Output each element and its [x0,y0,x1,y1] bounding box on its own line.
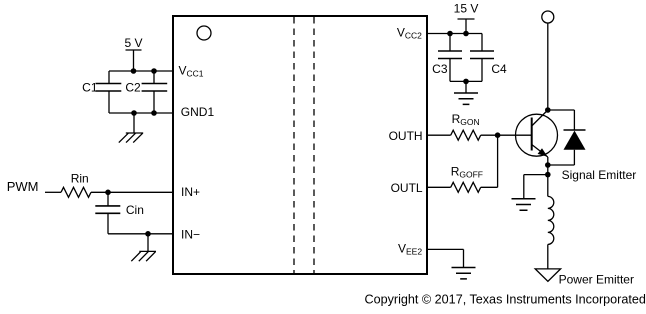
svg-text:IN−: IN− [181,227,200,241]
svg-text:OUTH: OUTH [389,129,423,143]
svg-text:Signal Emitter: Signal Emitter [562,168,637,182]
svg-text:C3: C3 [432,62,448,76]
svg-text:C4: C4 [491,62,507,76]
svg-text:C2: C2 [125,81,141,95]
svg-text:RGOFF: RGOFF [451,165,483,180]
svg-text:RGON: RGON [452,112,480,127]
svg-text:5 V: 5 V [124,36,142,50]
svg-text:VEE2: VEE2 [398,242,422,257]
svg-text:PWM: PWM [7,179,39,194]
svg-text:GND1: GND1 [181,105,215,119]
svg-text:OUTL: OUTL [391,181,423,195]
svg-text:15 V: 15 V [454,2,479,16]
svg-text:Rin: Rin [71,171,89,185]
svg-text:VCC1: VCC1 [179,64,204,79]
svg-text:IN+: IN+ [181,185,200,199]
svg-text:C1: C1 [82,81,98,95]
svg-text:Copyright © 2017, Texas Instru: Copyright © 2017, Texas Instruments Inco… [365,293,646,307]
svg-text:VCC2: VCC2 [397,25,422,40]
svg-text:Cin: Cin [126,203,144,217]
svg-text:Power Emitter: Power Emitter [559,272,634,286]
